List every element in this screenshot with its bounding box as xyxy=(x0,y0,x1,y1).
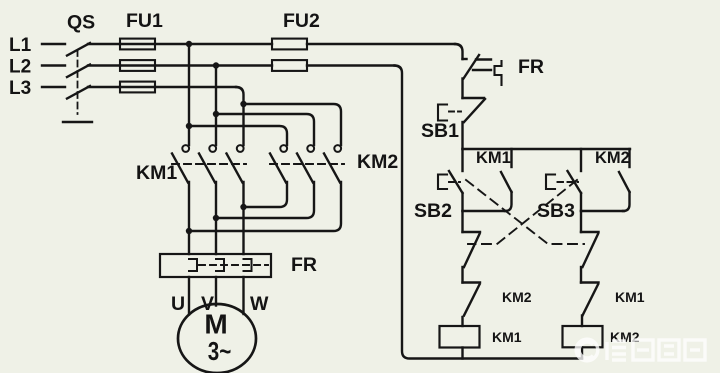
wire L3 supply stub xyxy=(42,86,65,88)
svg-text:L2: L2 xyxy=(9,57,31,78)
contactor KM2 main contact 2 xyxy=(297,145,314,182)
wire L2 from FU1 to left rail corner xyxy=(155,64,272,66)
thermal relay heater element 1 xyxy=(189,259,197,271)
wire KM2 output 3 crossover xyxy=(189,182,341,231)
wire L2 to FU1 xyxy=(88,64,120,66)
wire L3 to FU1 xyxy=(88,86,120,88)
svg-text:KM1: KM1 xyxy=(492,329,522,345)
svg-text:KM2: KM2 xyxy=(595,149,630,167)
switch QS blade L1 xyxy=(67,43,90,56)
wire KM2 feed from line2 xyxy=(216,114,314,145)
svg-text:FR: FR xyxy=(291,254,317,276)
pushbutton SB3 (NO start rev) xyxy=(546,149,581,211)
contact KM1 interlock NC (branch B) xyxy=(581,283,599,327)
wire SB1 to bus xyxy=(461,122,463,149)
fuse FU1 phase L1 xyxy=(120,39,155,50)
wire phase line 2 vertical xyxy=(215,66,217,146)
contactor KM1 linkage dashed xyxy=(172,163,246,165)
fuse FU2 phase L2 xyxy=(272,60,307,71)
switch QS blade L2 xyxy=(67,65,90,78)
wire L3 from FU1 to drop xyxy=(155,86,236,88)
fuse FU2 phase L1 xyxy=(272,39,307,50)
contact KM2 self-hold stub xyxy=(628,149,630,167)
wire line1 below contact xyxy=(188,182,190,254)
junction dot KM2 out to line3 xyxy=(240,204,246,210)
coil KM2 xyxy=(563,326,603,347)
wire phase line 1 vertical xyxy=(188,44,190,145)
svg-text:KM1: KM1 xyxy=(476,149,511,167)
wire coil KM1 to bottom bus xyxy=(461,348,463,359)
contact KM1 self-hold blade xyxy=(501,172,512,192)
thermal relay linkage dashed xyxy=(199,264,268,266)
wire coil KM2 to bottom bus xyxy=(581,347,583,358)
svg-text:SB1: SB1 xyxy=(421,120,459,142)
svg-text:M: M xyxy=(204,309,227,340)
wire KM1 self-hold to junction xyxy=(505,192,512,211)
svg-text:FR: FR xyxy=(518,56,544,78)
pushbutton SB2 NC contact (branch B) xyxy=(581,232,599,283)
junction dot L1 branch xyxy=(186,41,192,47)
contactor KM1 main contact 3 xyxy=(227,145,244,182)
contactor KM2 linkage dashed xyxy=(270,163,344,165)
junction dot line1 to KM2 feed xyxy=(186,123,192,129)
svg-text:SB3: SB3 xyxy=(537,200,575,222)
thermal relay heater element 3 xyxy=(244,259,252,271)
wire KM2 feed from line3 xyxy=(244,104,342,145)
contactor KM2 main contact 1 xyxy=(270,145,287,182)
svg-text:KM1: KM1 xyxy=(136,162,177,184)
junction dot line2 to KM2 feed xyxy=(213,111,219,117)
wire control bus xyxy=(463,148,631,150)
mechanical interlock dashed SB2 to NC xyxy=(466,180,584,244)
svg-text:FU1: FU1 xyxy=(126,10,163,32)
wire control feed from L1 xyxy=(455,44,463,59)
wire motor lead V xyxy=(215,277,217,306)
svg-text:FU2: FU2 xyxy=(283,10,320,32)
svg-text:SB2: SB2 xyxy=(414,200,452,222)
thermal relay heater element 2 xyxy=(216,259,224,271)
contact KM2 self-hold blade xyxy=(619,172,630,192)
wire L2 supply stub xyxy=(42,64,65,66)
coil KM1 xyxy=(440,326,480,348)
junction dot KM2 out to line1 xyxy=(186,228,192,234)
svg-text:L1: L1 xyxy=(9,35,32,56)
svg-text:KM1: KM1 xyxy=(615,289,645,305)
svg-text:QS: QS xyxy=(67,12,95,34)
wire branch A below junction xyxy=(461,211,463,232)
wire branch B below junction xyxy=(580,211,582,232)
wire line3 below contact xyxy=(242,182,244,254)
mechanical interlock dashed SB3 to NC xyxy=(468,180,577,244)
svg-text:W: W xyxy=(250,293,269,315)
motor M circle xyxy=(178,304,256,373)
svg-text:L3: L3 xyxy=(9,78,31,99)
fuse FU1 phase L3 xyxy=(120,82,155,93)
wire branch B junction xyxy=(581,210,624,212)
switch QS linkage dashed xyxy=(77,50,79,114)
wire KM2 output 2 crossover xyxy=(216,182,314,218)
contactor KM2 main contact 3 xyxy=(324,145,341,182)
wire left rail from L2 xyxy=(395,66,583,359)
pushbutton SB1 (NC stop) xyxy=(438,98,485,122)
contactor KM1 main contact 1 xyxy=(172,145,189,182)
fuse FU1 phase L2 xyxy=(120,60,155,71)
wire KM2 output 1 crossover xyxy=(244,182,288,207)
wire line2 below contact xyxy=(215,182,217,254)
pushbutton SB3 NC contact (branch A) xyxy=(463,232,481,283)
thermal relay FR NC contact xyxy=(463,55,502,85)
wire branch A junction xyxy=(463,210,507,212)
wire KM2 self-hold to junction xyxy=(623,192,630,211)
wire phase line 3 vertical xyxy=(236,87,244,145)
thermal relay FR box xyxy=(160,254,271,277)
svg-text:KM2: KM2 xyxy=(357,151,398,173)
wire L1 from FU1 to control feed corner xyxy=(155,43,272,45)
junction dot KM2 out to line2 xyxy=(213,215,219,221)
wire motor lead W xyxy=(242,277,244,314)
wire motor lead U xyxy=(188,277,190,315)
contact KM1 self-hold stub xyxy=(510,149,512,167)
watermark wukong logo xyxy=(576,339,598,361)
switch QS blade L3 xyxy=(67,86,90,99)
contact KM2 interlock NC (branch A) xyxy=(463,283,481,327)
wire L1 to FU1 xyxy=(88,43,120,45)
contactor KM1 main contact 2 xyxy=(199,145,216,182)
svg-text:3~: 3~ xyxy=(208,338,232,366)
switch QS handle bar xyxy=(63,121,92,123)
svg-text:KM2: KM2 xyxy=(502,289,532,305)
pushbutton SB2 (NO start fwd) xyxy=(438,149,463,211)
junction dot L2 branch xyxy=(213,62,219,68)
svg-text:U: U xyxy=(171,293,185,315)
watermark text xyxy=(607,340,705,360)
wire KM2 feed from line1 xyxy=(189,126,287,145)
wire L1 supply stub xyxy=(42,43,65,45)
wire FR to SB1 xyxy=(461,79,463,99)
junction dot line3 to KM2 feed xyxy=(240,101,246,107)
